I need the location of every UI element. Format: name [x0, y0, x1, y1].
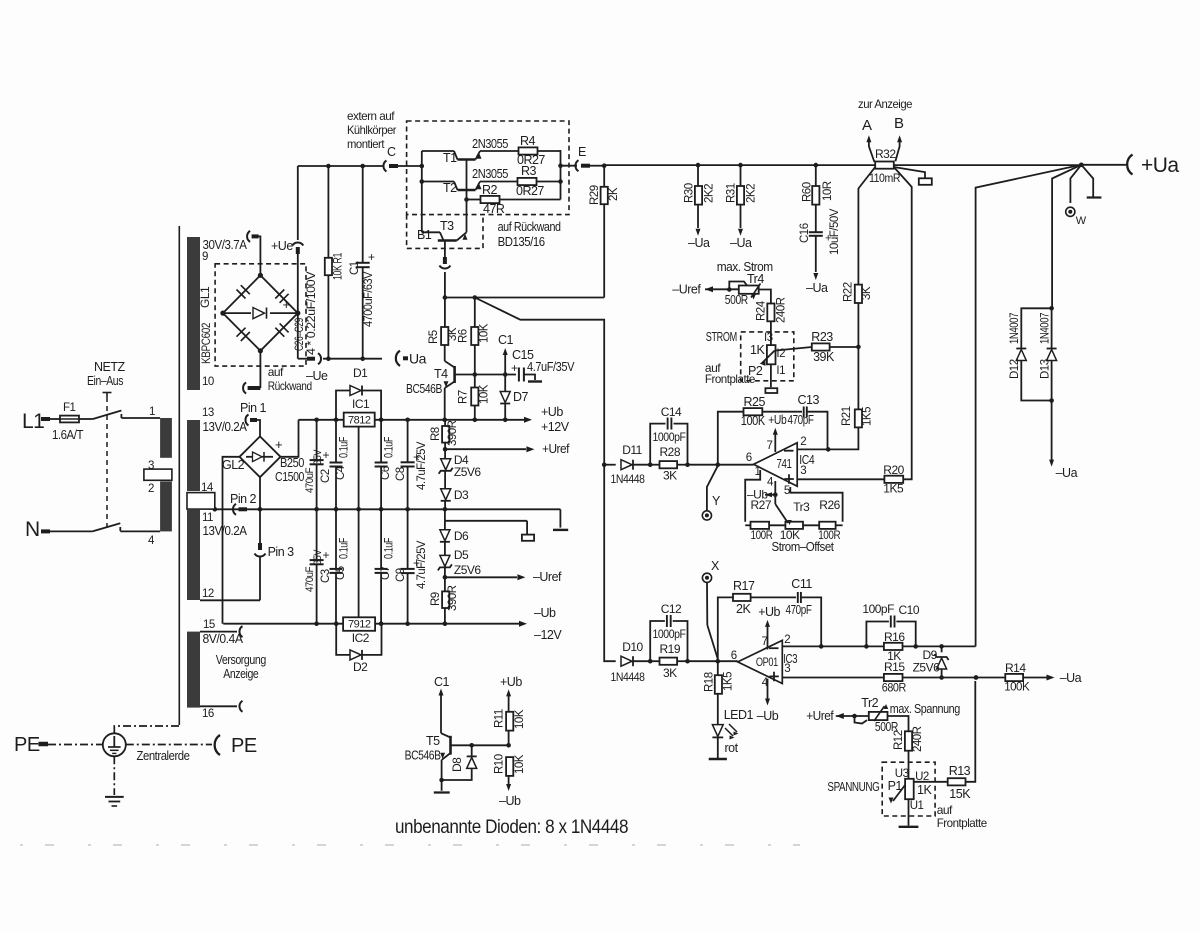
wire L1 lead: [41, 417, 60, 421]
svg-text:7912: 7912: [348, 619, 371, 631]
svg-text:+12V: +12V: [541, 420, 570, 434]
label -Ub IC4: [747, 488, 775, 502]
wire -Ub arrow T5: [506, 784, 511, 791]
svg-text:BC546B: BC546B: [406, 382, 442, 396]
label 12 pin: [202, 588, 214, 600]
switch linkage dashed: [106, 397, 108, 528]
capacitor C1: [356, 263, 370, 267]
svg-text:1000pF: 1000pF: [653, 627, 686, 641]
svg-text:100pF: 100pF: [862, 602, 894, 616]
svg-text:4.7uF/25V: 4.7uF/25V: [416, 441, 428, 490]
wire R3 to E vertical: [537, 179, 563, 184]
svg-text:C1500: C1500: [275, 470, 304, 484]
svg-text:470uF: 470uF: [304, 566, 316, 592]
label D13: [1040, 313, 1052, 379]
label T5: [426, 734, 440, 748]
label U3: [895, 768, 909, 780]
wire GL2 bottom down: [259, 477, 261, 509]
diode D8: [442, 745, 477, 780]
wire IC3 pin3 line: [782, 677, 884, 679]
label 100R R26: [818, 528, 841, 542]
svg-text:R13: R13: [949, 764, 971, 778]
svg-text:GL1: GL1: [198, 286, 212, 308]
wire R29 down: [603, 204, 605, 297]
svg-text:R12: R12: [893, 730, 905, 750]
label -Ub rail: [534, 606, 556, 620]
label R15: [884, 660, 905, 674]
label +Ue: [271, 239, 293, 253]
wire +12V rail: [299, 417, 533, 423]
label R8: [430, 420, 459, 446]
svg-text:C6: C6: [380, 466, 392, 480]
terminal +Ua arc: [1081, 155, 1132, 175]
label 15 pin: [203, 619, 215, 631]
label D4: [454, 453, 482, 479]
trimmer Tr2: [855, 704, 889, 724]
label 4.7uF/35V C15: [527, 360, 575, 374]
label 470pF C11: [786, 603, 813, 617]
svg-text:15K: 15K: [949, 787, 971, 801]
svg-text:Frontplatte: Frontplatte: [937, 816, 988, 830]
label +12V rail: [541, 420, 570, 434]
label STROM: [706, 330, 737, 344]
svg-text:R16: R16: [884, 630, 905, 644]
resistor R9: [442, 577, 449, 623]
wire PE left lead: [39, 742, 49, 747]
svg-text:R11: R11: [494, 709, 506, 728]
label C16: [799, 208, 841, 255]
svg-text:+Ua: +Ua: [1141, 154, 1179, 177]
resistor R10: [506, 757, 513, 786]
label R25: [744, 395, 766, 409]
svg-text:R20: R20: [883, 463, 904, 477]
label 2K R17: [736, 602, 751, 616]
transformer secondary 13V-a bar: [187, 420, 200, 491]
svg-text:C16: C16: [799, 223, 811, 243]
wire IC1 ground: [358, 427, 360, 510]
svg-text:C3: C3: [320, 569, 332, 583]
svg-text:10K: 10K: [479, 323, 491, 343]
label L1: [22, 410, 44, 433]
svg-text:C9: C9: [395, 568, 407, 582]
wire T3 base down: [444, 241, 446, 262]
wire IC4 pin7: [773, 428, 778, 452]
svg-text:R3: R3: [521, 164, 537, 178]
transformer secondary 13V-b bar: [187, 510, 200, 600]
label C7: [380, 538, 396, 580]
svg-text:GL2: GL2: [222, 458, 245, 472]
wire T1 collector: [422, 151, 458, 166]
diode D2 loop: [336, 624, 381, 660]
svg-text:0R27: 0R27: [516, 184, 544, 198]
label C8: [395, 441, 428, 490]
svg-text:3K: 3K: [663, 469, 677, 483]
label P2: [748, 364, 763, 378]
label T3: [440, 219, 454, 233]
LED LED1: [712, 724, 738, 759]
svg-text:D6: D6: [454, 529, 469, 543]
label 10: [202, 376, 214, 388]
svg-text:0.1uF: 0.1uF: [384, 437, 396, 458]
svg-text:montiert: montiert: [347, 137, 385, 151]
svg-text:7812: 7812: [348, 414, 371, 426]
svg-text:7: 7: [767, 440, 773, 452]
resistor R15: [884, 674, 903, 681]
wire R25 to C13: [762, 411, 802, 413]
dashed box GL1: [215, 264, 306, 366]
svg-text:T4: T4: [434, 367, 448, 381]
svg-text:4 * 0.22uF/100V: 4 * 0.22uF/100V: [306, 271, 318, 355]
label Y: [712, 494, 721, 508]
jack X: [702, 573, 711, 582]
label PE right: [231, 735, 257, 757]
svg-text:R19: R19: [660, 642, 681, 656]
label 30V/3.7A: [203, 237, 248, 252]
svg-text:470pF: 470pF: [786, 603, 813, 617]
label 3: [148, 460, 154, 472]
svg-text:10K R1: 10K R1: [333, 253, 345, 280]
wire T5 emitter down: [439, 760, 444, 791]
svg-text:STROM: STROM: [706, 330, 737, 344]
label -Ua D13: [1056, 466, 1078, 480]
transistor T4: [444, 366, 455, 388]
wire IC4 pin5 loop: [790, 487, 842, 522]
capacitor C2: [310, 420, 324, 510]
label R2: [482, 183, 498, 197]
svg-text:1: 1: [149, 406, 155, 418]
label R4: [520, 134, 536, 148]
svg-text:2K: 2K: [736, 602, 751, 616]
svg-text:auf Rückwand: auf Rückwand: [498, 220, 561, 234]
winding pin13 connector Pin 1: [240, 401, 267, 426]
label zur Anzeige: [858, 97, 913, 111]
label 14 pin: [201, 482, 214, 494]
resistor R31: [737, 165, 744, 236]
svg-text:C1: C1: [498, 333, 514, 347]
wire +Ua fan to chassis: [1081, 165, 1093, 198]
label P1: [888, 779, 903, 793]
svg-text:1N4448: 1N4448: [611, 472, 646, 486]
ground P1: [899, 826, 919, 828]
label -12V rail: [534, 628, 562, 642]
svg-text:1K5: 1K5: [862, 407, 874, 426]
earth circle Zentralerde: [103, 733, 126, 756]
label max Spannung: [890, 702, 960, 716]
svg-text:C13: C13: [798, 393, 820, 407]
wire collector bus vertical: [420, 164, 425, 233]
label R26: [819, 498, 840, 512]
wire R21 to pin2 node: [828, 427, 858, 449]
label auf Frontplatte STROM: [705, 361, 756, 386]
label C3: [304, 548, 332, 592]
svg-text:B250: B250: [280, 456, 304, 470]
ground LED1: [709, 758, 727, 760]
wire GL1 bottom to pin10: [251, 351, 260, 388]
capacitor C16: [809, 232, 823, 280]
label +Ub IC3: [758, 605, 780, 619]
label 100pF C10: [862, 602, 894, 616]
svg-text:BC546B: BC546B: [405, 749, 441, 763]
label 4 IC3: [762, 677, 769, 689]
wire IC2 ground: [358, 509, 360, 617]
svg-text:470uF: 470uF: [304, 467, 316, 493]
switch S1a blade: [92, 411, 160, 420]
svg-text:KBPC602: KBPC602: [199, 322, 213, 364]
label R20: [883, 463, 904, 477]
wire P1 wiper: [889, 785, 906, 804]
solder lug R32: [919, 178, 932, 185]
op-amp IC3 OP01: [738, 640, 783, 683]
svg-text:D7: D7: [513, 390, 529, 404]
transistor T3: [438, 232, 468, 240]
label R22: [843, 282, 873, 302]
connector -Ue: [318, 353, 321, 364]
svg-text:47R: 47R: [483, 202, 505, 216]
wire pin2 net: [821, 644, 975, 649]
label C1 T5: [434, 675, 450, 689]
svg-text:R17: R17: [733, 579, 755, 593]
wire PE dashdot left: [48, 744, 103, 746]
label R31: [726, 183, 758, 203]
svg-text:3K: 3K: [663, 666, 677, 680]
dashed box SPANNUNG: [882, 762, 935, 816]
svg-text:Y: Y: [712, 494, 721, 508]
svg-text:C8: C8: [395, 467, 407, 481]
svg-text:–Ub: –Ub: [757, 709, 779, 723]
label Kuehlkoerper: [347, 123, 396, 137]
wire E to bus right: [590, 163, 607, 168]
label C15: [512, 348, 534, 362]
svg-text:15: 15: [203, 619, 215, 631]
label GL1: [198, 286, 212, 308]
label 110mR: [869, 171, 901, 185]
svg-text:30V/3.7A: 30V/3.7A: [203, 237, 248, 252]
svg-text:Kühlkörper: Kühlkörper: [347, 123, 396, 137]
svg-text:0.1uF: 0.1uF: [384, 538, 396, 559]
svg-text:+Ub: +Ub: [758, 605, 780, 619]
label D5: [454, 548, 482, 577]
label D12: [1009, 313, 1021, 379]
transformer primary tap step: [144, 469, 172, 480]
svg-text:1N4007: 1N4007: [1009, 313, 1021, 344]
label + C1: [368, 250, 375, 264]
label BC546B T4: [406, 382, 442, 396]
wire R32 right fan to V1: [894, 167, 912, 284]
label U2: [915, 771, 929, 783]
IC regulator IC2 7912: [343, 617, 375, 631]
svg-text:10R: 10R: [822, 181, 834, 201]
svg-text:+Uref: +Uref: [542, 442, 570, 456]
label IC4: [799, 453, 814, 467]
label R3: [521, 164, 537, 178]
wire bus R32 to +Ua: [894, 163, 1084, 168]
svg-text:U1: U1: [910, 800, 924, 812]
wire V0 bus: [602, 462, 607, 467]
label A: [862, 117, 872, 134]
label SPANNUNG: [827, 780, 879, 794]
svg-text:Ein–Aus: Ein–Aus: [87, 374, 123, 388]
resistor R18: [715, 661, 722, 725]
wire R14 to -Ua: [1023, 675, 1054, 681]
svg-text:390R: 390R: [447, 585, 459, 611]
svg-text:240R: 240R: [912, 726, 924, 752]
label +Uref Tr2: [806, 709, 834, 723]
svg-text:LED1: LED1: [724, 708, 754, 722]
label Ua: [409, 351, 427, 367]
wire T4 base line: [455, 372, 508, 377]
svg-text:39K: 39K: [813, 350, 835, 364]
svg-text:5: 5: [784, 485, 790, 497]
svg-text:470pF: 470pF: [788, 413, 815, 427]
diode D12 loop: [1016, 308, 1051, 400]
label Tr3: [793, 500, 810, 514]
svg-text:max. Strom: max. Strom: [717, 260, 773, 274]
connector Pin 3: [255, 543, 295, 559]
label R12: [893, 726, 924, 752]
wire R17 to C11: [751, 596, 796, 598]
wire C1 arrow T5: [439, 689, 444, 734]
svg-text:R25: R25: [744, 395, 766, 409]
svg-text:R27: R27: [751, 498, 772, 512]
wire Y branch: [707, 466, 718, 511]
svg-text:–12V: –12V: [534, 628, 562, 642]
bridge rectifier GL2: [240, 436, 281, 477]
label LED1: [724, 708, 754, 722]
svg-text:D10: D10: [622, 640, 643, 654]
wire T5 collector: [441, 733, 451, 737]
svg-text:C1: C1: [349, 261, 361, 275]
label 500R Tr2: [875, 720, 898, 734]
capacitor C8: [401, 420, 415, 510]
svg-text:12: 12: [202, 588, 214, 600]
label PE left: [14, 734, 40, 756]
resistor R16: [884, 643, 903, 650]
wire P2 bottom: [770, 364, 772, 387]
label Z5V6 D9: [913, 661, 941, 675]
terminal PE right arc: [215, 735, 220, 755]
capacitor C5: [330, 509, 343, 623]
svg-text:0.1uF: 0.1uF: [339, 437, 351, 458]
label 1000pF C14: [653, 430, 686, 444]
svg-text:C10: C10: [899, 603, 920, 617]
label R28: [660, 445, 681, 459]
svg-text:C26–C29: C26–C29: [294, 318, 306, 351]
wire R20 to V1: [903, 284, 912, 479]
label C1 value: [349, 261, 375, 327]
label C10: [899, 603, 920, 617]
label 2: [148, 483, 154, 495]
transformer center step: [187, 493, 215, 510]
label W: [1076, 215, 1087, 227]
wire C13 to pin2 node: [807, 412, 828, 450]
label R18: [704, 672, 735, 692]
label D8: [450, 757, 464, 772]
wire +Ua fan to W: [1070, 165, 1081, 203]
resistor R1: [325, 258, 332, 275]
label R19: [660, 642, 681, 656]
capacitor C12 loop: [648, 615, 690, 664]
capacitor C4: [330, 420, 343, 510]
svg-text:T3: T3: [440, 219, 454, 233]
svg-text:F1: F1: [63, 402, 76, 414]
svg-text:+Ue: +Ue: [271, 239, 293, 253]
wire +Ua fan to V2: [976, 165, 1082, 284]
wire base bus T1 T2: [464, 160, 469, 202]
svg-text:SPANNUNG: SPANNUNG: [827, 780, 879, 794]
wire T3 collector: [422, 232, 444, 240]
label 15K R13: [949, 787, 971, 801]
label R23: [811, 330, 833, 344]
wire C11 to pin2 node: [801, 597, 821, 646]
wire N lead: [41, 529, 92, 533]
svg-text:C1: C1: [434, 675, 450, 689]
label extern auf: [347, 109, 395, 123]
capacitor C13: [804, 407, 807, 418]
label montiert: [347, 137, 385, 151]
wire pin16: [200, 705, 237, 707]
label D9: [923, 648, 938, 662]
label Anzeige: [223, 667, 258, 681]
label 1K5 R20: [883, 482, 904, 496]
label U1: [910, 800, 924, 812]
wire R12 to P1: [908, 751, 910, 779]
label IC2: [352, 631, 370, 645]
label C13: [798, 393, 820, 407]
label 13V/0.2A b: [203, 523, 248, 538]
resistor R60: [812, 165, 819, 232]
wire X branch: [707, 582, 718, 659]
wire +Ub arrow T5: [506, 689, 511, 696]
label R13: [949, 764, 971, 778]
label NETZ: [94, 360, 126, 374]
winding pin16 connector: [239, 701, 242, 712]
label C6: [380, 437, 396, 480]
label C12: [661, 602, 682, 616]
svg-text:1K: 1K: [750, 343, 765, 357]
svg-text:2N3055: 2N3055: [472, 137, 508, 151]
wire R4 to E corner: [538, 150, 561, 200]
label 47R: [483, 202, 505, 216]
svg-text:2: 2: [784, 634, 790, 646]
label R7: [458, 384, 491, 404]
jack Y: [702, 511, 711, 520]
wire GL2 plus up: [281, 420, 299, 457]
label 1K P1: [917, 783, 932, 797]
svg-text:R22: R22: [843, 282, 855, 302]
wire R22 to R23 node: [857, 303, 859, 410]
label 6 IC3: [731, 650, 737, 662]
svg-text:1K5: 1K5: [883, 482, 904, 496]
label 1: [149, 406, 155, 418]
resistor R6: [471, 327, 478, 345]
svg-text:E: E: [578, 145, 586, 159]
svg-text:+: +: [283, 297, 290, 312]
svg-text:4.7uF/25V: 4.7uF/25V: [416, 540, 428, 589]
IC regulator IC1 7812: [344, 413, 375, 427]
svg-text:max. Spannung: max. Spannung: [890, 702, 960, 716]
resistor R3: [518, 178, 537, 185]
wire IC3 pin4: [765, 679, 770, 706]
transformer secondary 8V bar: [187, 632, 200, 708]
fuse F1: [60, 416, 79, 423]
label -Ua C16: [806, 281, 828, 295]
label C1 stub: [498, 333, 514, 347]
svg-text:4700uF/63V: 4700uF/63V: [363, 271, 375, 327]
svg-text:+Ub: +Ub: [500, 675, 522, 689]
svg-text:BD135/16: BD135/16: [498, 235, 545, 249]
transformer core line: [178, 226, 180, 725]
label 0R27 R4: [517, 153, 545, 167]
